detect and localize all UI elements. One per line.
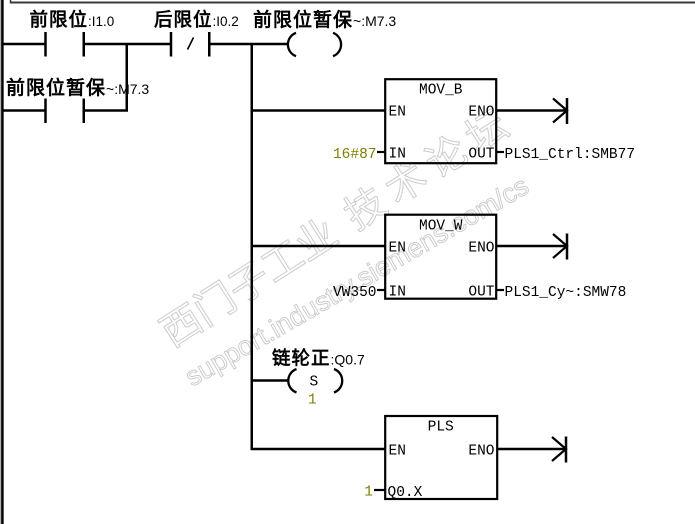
contact NC 后限位:I0.2 bar2 — [208, 32, 211, 57]
arrow 1 bar — [566, 98, 569, 124]
wire rung2 right — [85, 109, 128, 112]
svg-text:16#87: 16#87 — [333, 147, 377, 163]
svg-text:MOV_W: MOV_W — [419, 219, 463, 235]
svg-text:ENO: ENO — [468, 105, 494, 121]
wire rung1 left — [3, 43, 45, 46]
branch junction J1 vertical — [126, 43, 129, 112]
wire MOV_B ENO out — [497, 109, 567, 112]
contact NC 后限位:I0.2 bar1 — [170, 32, 173, 57]
S coil left paren — [288, 369, 296, 393]
svg-text:PLS1_Cy~:SMW78: PLS1_Cy~:SMW78 — [505, 285, 627, 301]
svg-text:ENO: ENO — [468, 241, 494, 257]
svg-text:OUT: OUT — [468, 285, 494, 301]
wire branch PLS EN — [251, 448, 385, 451]
svg-text:PLS1_Ctrl:SMB77: PLS1_Ctrl:SMB77 — [505, 147, 636, 163]
top border notch — [10, 0, 12, 4]
contact 前限位:I1.0 bar2 — [83, 32, 86, 57]
watermark latin line support.industry.siemens.com/cs — [180, 171, 534, 393]
arrow 2 bar — [566, 234, 569, 260]
contact NC slash — [188, 38, 194, 50]
svg-text:Q0.X: Q0.X — [388, 485, 423, 501]
tick 16#87 to IN — [377, 151, 385, 153]
svg-text:1: 1 — [364, 485, 373, 501]
box MOV_B — [385, 79, 496, 163]
arrow 2 head — [553, 234, 567, 258]
S coil right paren — [334, 369, 342, 393]
top border line — [11, 2, 695, 4]
watermark CJK line 西门子工业 技术论坛 — [153, 98, 522, 355]
wire branch S coil — [251, 379, 288, 382]
arrow 3 head — [552, 437, 566, 461]
main junction J2 vertical — [251, 43, 254, 450]
svg-text:链轮正:Q0.7: 链轮正:Q0.7 — [272, 348, 365, 369]
svg-text:S: S — [310, 375, 319, 391]
svg-text:IN: IN — [389, 285, 406, 301]
tick OUT MOV_B — [497, 151, 505, 153]
svg-text:PLS: PLS — [428, 420, 454, 436]
wire branch MOV_B EN — [251, 109, 385, 112]
left window edge — [0, 0, 2, 524]
svg-text:前限位暂保~:M7.3: 前限位暂保~:M7.3 — [253, 9, 396, 31]
box PLS — [385, 416, 497, 499]
svg-text:IN: IN — [389, 147, 406, 163]
tick 1 to Q0.X — [374, 489, 385, 491]
svg-text:1: 1 — [308, 393, 317, 409]
wire rung2 left — [3, 109, 45, 112]
contact 前限位暂保 bar2 — [83, 99, 86, 124]
wire MOV_W ENO out — [497, 245, 567, 248]
box MOV_W — [385, 215, 496, 299]
svg-text:OUT: OUT — [468, 147, 494, 163]
arrow 3 bar — [565, 437, 568, 463]
svg-text:VW350: VW350 — [333, 285, 377, 301]
contact 前限位暂保 bar1 — [44, 99, 47, 124]
tick OUT MOV_W — [497, 289, 505, 291]
wire rung1 middle — [85, 43, 170, 46]
svg-text:ENO: ENO — [468, 444, 494, 460]
svg-text:前限位暂保~:M7.3: 前限位暂保~:M7.3 — [6, 77, 149, 99]
wire branch MOV_W EN — [251, 245, 385, 248]
wire PLS ENO out — [498, 448, 566, 451]
coil M7.3 left paren — [288, 33, 296, 56]
wire rung1 right — [211, 43, 288, 46]
tick VW350 to IN — [377, 289, 385, 291]
coil M7.3 right paren — [333, 33, 341, 56]
svg-text:EN: EN — [389, 105, 406, 121]
svg-text:EN: EN — [389, 241, 406, 257]
arrow 1 head — [553, 99, 567, 123]
contact 前限位:I1.0 bar1 — [44, 32, 47, 57]
svg-text:EN: EN — [389, 444, 406, 460]
left power rail — [1, 0, 4, 524]
svg-text:MOV_B: MOV_B — [419, 83, 463, 99]
